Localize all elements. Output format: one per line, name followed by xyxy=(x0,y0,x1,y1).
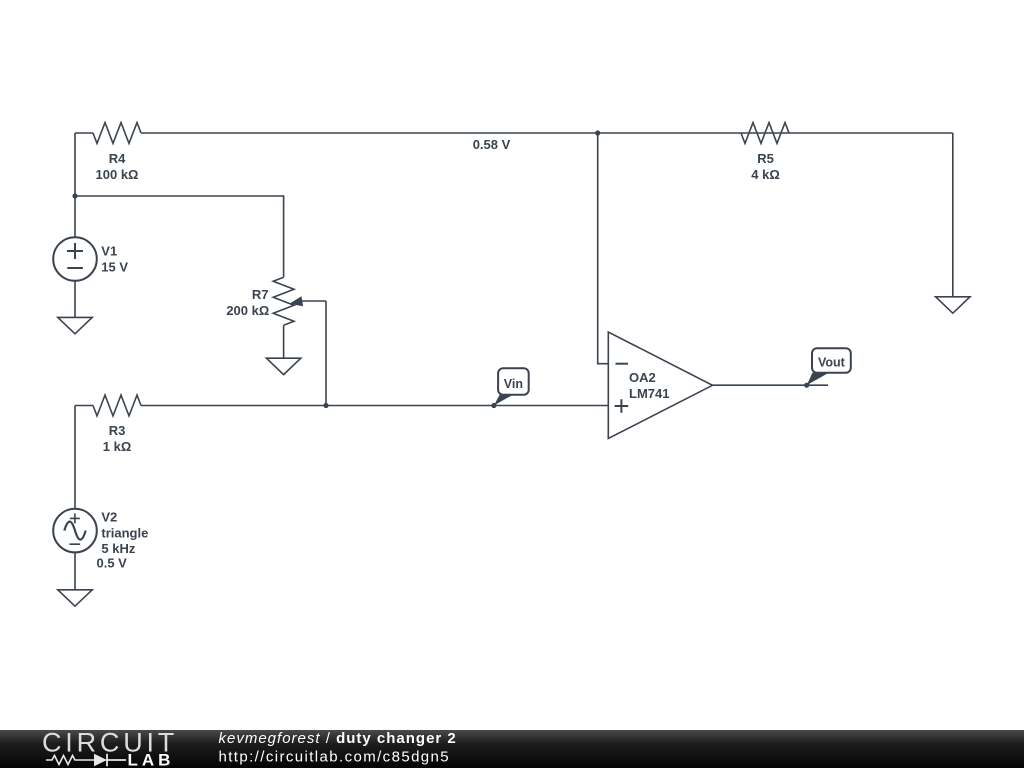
wiper arrow of R7 xyxy=(299,300,326,302)
node junction dot wiper/bottom net xyxy=(323,403,328,408)
svg-text:R5: R5 xyxy=(757,151,774,166)
svg-text:Vin: Vin xyxy=(504,377,523,391)
wire V1 bottom to ground xyxy=(74,281,76,318)
svg-text:triangle: triangle xyxy=(101,525,148,540)
svg-text:http://circuitlab.com/c85dgn5: http://circuitlab.com/c85dgn5 xyxy=(219,749,451,766)
svg-text:LM741: LM741 xyxy=(629,386,669,401)
node junction dot at top net xyxy=(595,130,600,135)
ground (under R7) xyxy=(266,358,300,374)
svg-text:R4: R4 xyxy=(109,151,126,166)
ground (under V2) xyxy=(58,590,92,606)
svg-text:0.5 V: 0.5 V xyxy=(97,556,128,571)
wire from R7 wiper down to bottom net xyxy=(325,301,327,406)
svg-text:15 V: 15 V xyxy=(101,260,128,275)
node Vin flag xyxy=(491,403,496,408)
svg-text:1 kΩ: 1 kΩ xyxy=(103,439,132,454)
ground (right, under R5) xyxy=(936,297,970,313)
wire R7 bottom to ground xyxy=(283,325,285,358)
CircuitLab logo resistor-diode glyph xyxy=(46,756,94,765)
svg-text:LAB: LAB xyxy=(128,750,175,768)
wire op-amp output xyxy=(713,384,829,386)
svg-text:0.58 V: 0.58 V xyxy=(473,137,511,152)
ground (under V1) xyxy=(58,317,92,333)
svg-text:200 kΩ: 200 kΩ xyxy=(226,303,269,318)
svg-text:V1: V1 xyxy=(101,244,117,259)
svg-text:100 kΩ: 100 kΩ xyxy=(96,167,139,182)
svg-text:Vout: Vout xyxy=(818,356,846,370)
svg-text:OA2: OA2 xyxy=(629,370,656,385)
svg-text:V2: V2 xyxy=(101,510,117,525)
svg-text:4 kΩ: 4 kΩ xyxy=(751,167,780,182)
node Vout flag xyxy=(804,383,809,388)
wire from top net down to op-amp inverting input xyxy=(598,133,609,364)
potentiometer R7 xyxy=(273,277,294,325)
wire R4 left lead xyxy=(75,132,93,134)
wire right vertical down to ground xyxy=(952,133,954,297)
wire bottom net from R3 to op-amp non-inverting input xyxy=(141,405,608,407)
wire top horizontal from R4 to R5 to right corner xyxy=(141,132,953,134)
resistor R3 xyxy=(93,395,141,416)
voltage source V1 xyxy=(53,237,97,281)
resistor R4 xyxy=(93,123,141,144)
svg-text:R3: R3 xyxy=(109,423,126,438)
wire R3 left lead xyxy=(75,405,93,407)
svg-text:kevmegforest / duty changer 2: kevmegforest / duty changer 2 xyxy=(219,730,457,747)
wire from V1 node to R7 top xyxy=(75,196,284,277)
wire V2 bottom to ground xyxy=(74,552,76,589)
svg-text:R7: R7 xyxy=(252,287,269,302)
node junction dot V1/R4 xyxy=(72,193,77,198)
voltage source V2 xyxy=(53,509,97,553)
op-amp OA2 xyxy=(608,332,712,439)
wire bottom left corner down to V2 xyxy=(74,406,76,509)
resistor R5 xyxy=(741,123,789,144)
wire left top corner down to V1 xyxy=(74,133,76,237)
svg-text:5 kHz: 5 kHz xyxy=(101,541,135,556)
footer bar xyxy=(0,730,1024,768)
